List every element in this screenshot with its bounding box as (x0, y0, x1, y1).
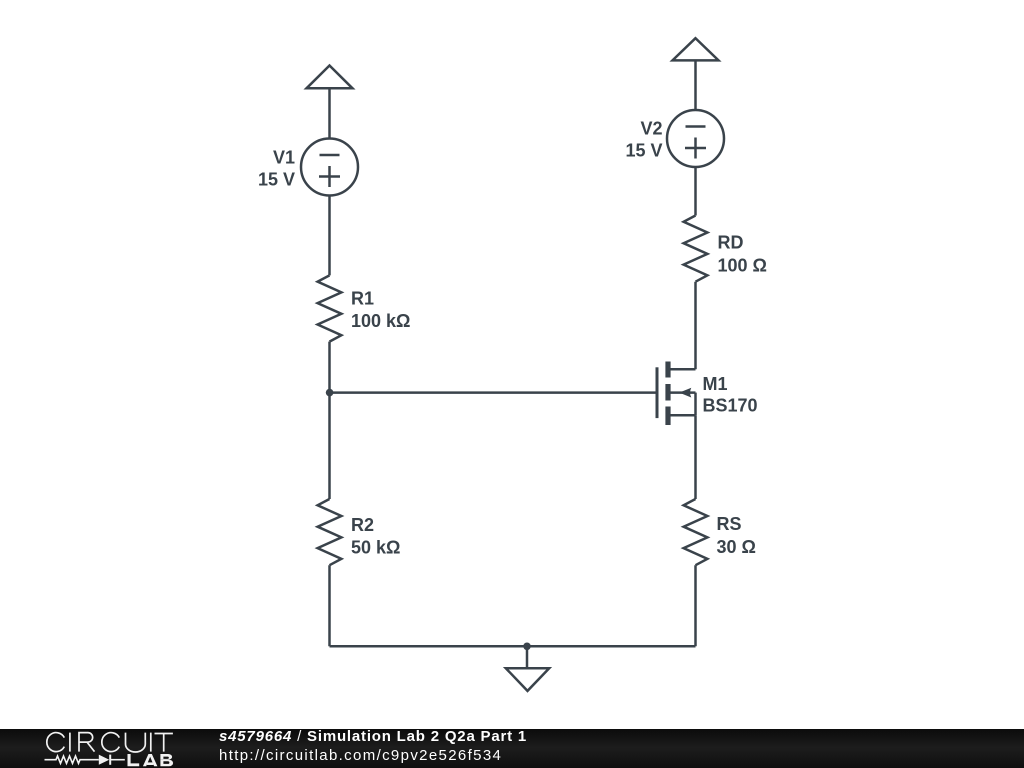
svg-text:100 Ω: 100 Ω (718, 256, 767, 276)
power supply +V symbol (V1 branch) (307, 66, 353, 89)
svg-text:30 Ω: 30 Ω (717, 537, 756, 557)
wire R1 to gate node (328, 342, 331, 393)
wire V+ to V2 top (694, 60, 697, 110)
wire V1 to R1 (328, 196, 331, 276)
svg-text:R2: R2 (351, 515, 374, 535)
power supply +V symbol (V2 branch) (673, 38, 719, 60)
wire M1 source to RS (694, 415, 697, 499)
ground symbol (506, 646, 549, 691)
junction node (ground tap) (523, 643, 531, 651)
wire V2 to RD (694, 167, 697, 216)
wire node to R2 (328, 393, 331, 499)
CircuitLab logo wordmark LAB (128, 754, 174, 766)
svg-text:RS: RS (717, 514, 742, 534)
resistor RS (684, 499, 708, 565)
svg-text:BS170: BS170 (703, 396, 758, 416)
svg-text:RD: RD (718, 233, 744, 253)
junction node (gate divider) (326, 389, 334, 397)
footer title text (219, 727, 527, 765)
bottom rail wire (330, 645, 696, 648)
CircuitLab logo wordmark CIRCUIT (0, 729, 190, 768)
wire RS to bottom rail (694, 565, 697, 646)
wire V+ to V1 top (328, 88, 331, 138)
wire R2 to bottom rail (328, 565, 331, 646)
CircuitLab logo circuit squiggle (45, 755, 125, 765)
footer bar (0, 729, 1024, 768)
wire RD to M1 drain (694, 282, 697, 370)
voltage source V1 (301, 139, 358, 196)
resistor R1 (318, 275, 342, 341)
svg-text:100 kΩ: 100 kΩ (351, 311, 410, 331)
svg-text:15 V: 15 V (258, 169, 295, 189)
svg-text:V1: V1 (273, 147, 295, 167)
resistor RD (684, 216, 708, 282)
svg-text:M1: M1 (703, 374, 728, 394)
gate wire node to M1 (330, 391, 657, 394)
resistor R2 (318, 499, 342, 565)
svg-text:V2: V2 (640, 119, 662, 139)
svg-text:50 kΩ: 50 kΩ (351, 538, 400, 558)
svg-text:15 V: 15 V (625, 141, 662, 161)
voltage source V2 (667, 110, 724, 167)
MOSFET M1 (BS170 N-channel) (657, 362, 696, 426)
svg-text:R1: R1 (351, 289, 374, 309)
